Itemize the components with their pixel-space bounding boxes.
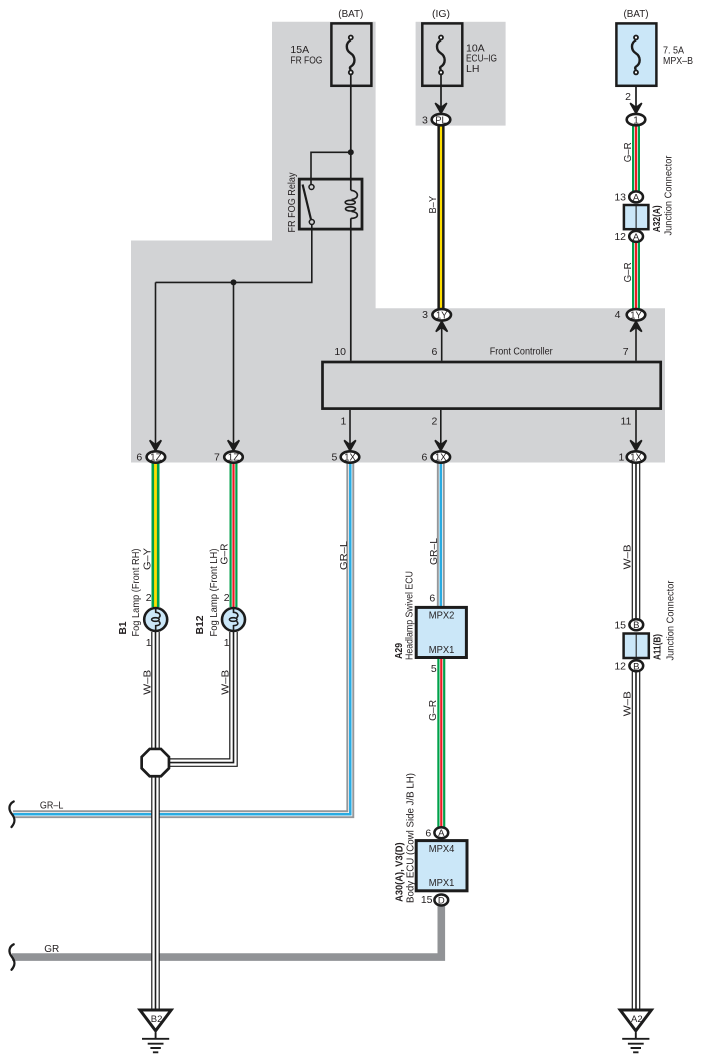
arrowhead down into PL [435,103,447,113]
svg-text:G–Y: G–Y [142,548,154,570]
svg-text:2: 2 [146,592,152,604]
svg-text:B2: B2 [151,1014,163,1025]
svg-text:A: A [438,828,445,839]
svg-text:FR FOG Relay: FR FOG Relay [286,172,298,233]
svg-text:G–R: G–R [219,543,231,564]
fuse 15A FR FOG element [347,36,355,75]
svg-text:(BAT): (BAT) [624,8,649,20]
svg-text:7: 7 [214,452,220,464]
wire Front Controller pin 6 up to 1Y [441,325,443,361]
svg-text:15: 15 [614,619,626,631]
svg-text:Junction Connector: Junction Connector [663,155,675,235]
svg-text:12: 12 [614,661,626,673]
svg-text:B1: B1 [117,621,129,634]
wire IG fuse tail to PL connector [440,75,442,109]
wire G-Y green-yellow from 1Z pin 6 to fog lamp B1 [152,462,160,607]
svg-text:1Z: 1Z [228,453,240,464]
break mark (wire continues) on GR at page left [9,944,14,970]
wire Front Controller pin 11 down to 1X [635,410,637,445]
wire GR-L gray-blue: vertical from 1X pin 5 down, corner left to page edge [13,463,350,814]
svg-text:B12: B12 [194,615,206,634]
ECU A29 Headlamp Swivel box (MPX2/MPX1) [416,607,466,657]
connector oval 1Z pin 6 [147,451,166,463]
svg-text:(IG): (IG) [432,8,450,20]
arrowhead down into 1X pin 5 [344,440,356,450]
wire MPX-B fuse tail to connector 1 [635,75,637,109]
connector oval PL [432,114,451,126]
pin circle A (6) of A30 [434,827,448,839]
arrowhead down into 1Z pin 6 [150,440,162,450]
pin circle B (15) of A11 [629,619,643,631]
wire branch down to connector 1Z pin 7 [233,282,235,445]
fuse 7.5A MPX-B box [616,23,656,85]
svg-text:1X: 1X [630,453,642,464]
svg-text:5: 5 [431,663,437,675]
wire G-R green-red from 1Z pin 7 to fog lamp B12 [230,462,238,607]
fuse 7.5A MPX-B element [632,36,640,75]
svg-text:A: A [633,232,640,243]
wire BAT fuse to relay coil (black) [350,75,352,191]
arrowhead down into 1X pin 6 [435,440,447,450]
connector oval 1X pin 5 [341,451,360,463]
pin circle A (12) of A32 [629,231,643,243]
svg-text:Body ECU (Cowl Side J/B LH): Body ECU (Cowl Side J/B LH) [405,773,417,903]
wire W-B from junction connector A11 down to ground A2 [632,670,641,1009]
arrowhead up into 1Y pin 3 [436,321,448,331]
wire relay coil out to Front Controller pin 10 [350,218,352,360]
svg-text:MPX1: MPX1 [429,644,455,656]
relay switch contact [303,185,315,225]
pin circle A (13) of A32 [629,191,643,203]
arrowhead down into connector 1 [630,103,642,113]
wire G-R from junction connector A32 down to 1Y pin 4 [632,241,640,309]
wire Front Controller pin 1 down to 1X [349,410,351,445]
junction connector A11(B) box [624,634,649,659]
svg-text:2: 2 [625,91,631,103]
svg-text:GR: GR [44,943,59,955]
pin circle B (12) of A11 [629,660,643,672]
svg-text:5: 5 [331,452,337,464]
svg-text:3: 3 [422,115,428,127]
ground B2 [140,1010,171,1052]
svg-text:GR–L: GR–L [338,541,350,570]
relay FR FOG Relay box [299,179,362,229]
svg-text:PL: PL [435,115,447,126]
wire G-R from Headlamp Swivel ECU pin 5 down to Body ECU pin A [437,658,445,828]
svg-text:FR FOG: FR FOG [290,55,322,67]
node octagon wire junction [142,749,169,776]
svg-text:B: B [633,661,639,672]
connector oval 1Y pin 3 [432,309,451,321]
arrowhead down into 1X pin 1 [630,440,642,450]
svg-text:13: 13 [614,191,626,203]
connector oval 1 (MPX-B) [627,114,646,126]
svg-text:2: 2 [224,592,230,604]
fuse 15A FR FOG box [331,23,371,85]
fog lamp B12 (Front LH) bulb [222,607,245,632]
svg-text:Junction Connector: Junction Connector [664,580,676,660]
svg-text:6: 6 [136,452,142,464]
wire W-B from 1X pin 1 down to junction connector A11 [632,463,641,620]
connector oval 1X pin 6 [432,451,451,463]
wire Front Controller pin 7 up to 1Y [635,325,637,361]
svg-text:1: 1 [340,416,346,428]
svg-text:G–R: G–R [622,142,634,162]
svg-text:1Z: 1Z [150,453,162,464]
svg-text:3: 3 [422,309,428,321]
wire branch junction to relay switch [311,152,351,184]
svg-text:G–R: G–R [427,699,439,720]
gray shading IG fuse region [416,22,506,126]
svg-text:6: 6 [432,346,438,358]
svg-text:W–B: W–B [622,544,634,569]
connector oval 1Z pin 7 [224,451,243,463]
svg-text:6: 6 [425,828,431,840]
svg-text:MPX1: MPX1 [429,877,455,889]
svg-text:MPX4: MPX4 [429,843,455,855]
svg-text:B: B [633,620,639,631]
svg-text:1Y: 1Y [630,311,642,322]
ground A2 [620,1010,651,1052]
svg-text:MPX2: MPX2 [429,609,455,621]
svg-text:W–B: W–B [220,670,232,695]
svg-text:A: A [633,192,640,203]
node junction dot on relay output branch [231,279,237,285]
connector oval 1X pin 1 [627,451,646,463]
svg-text:D: D [438,896,445,907]
svg-text:1: 1 [146,637,152,649]
svg-text:1X: 1X [435,453,447,464]
svg-text:A2: A2 [631,1014,643,1025]
svg-text:(BAT): (BAT) [338,8,363,20]
svg-text:1: 1 [633,115,639,126]
wire branch down to connector 1Z pin 6 [155,282,157,445]
svg-text:7: 7 [623,346,629,358]
fuse 10A ECU-IG LH box [422,23,462,85]
svg-text:12: 12 [614,231,626,243]
svg-text:GR–L: GR–L [428,538,440,565]
arrowhead down into 1Z pin 7 [228,440,240,450]
Front Controller box [323,362,661,409]
svg-text:G–R: G–R [622,262,634,282]
svg-text:6: 6 [421,452,427,464]
wire B-Y black-yellow from PL connector down to 1Y [437,125,444,309]
wire G-R from connector 1 down to junction connector A32 [632,125,640,192]
svg-text:1: 1 [618,452,624,464]
svg-text:11: 11 [620,416,631,428]
arrowhead up into 1Y pin 4 [630,321,642,331]
node junction dot at relay feed [348,149,354,155]
svg-text:6: 6 [429,592,435,604]
break mark (wire continues) on GR-L at page left [9,802,14,828]
wire GR solid gray from Body ECU pin D down, corner left to page edge [12,903,441,957]
svg-text:MPX–B: MPX–B [663,55,693,67]
fuse 10A ECU-IG LH element [437,36,445,75]
svg-text:B–Y: B–Y [427,196,439,214]
junction connector A32(A) box [624,205,649,229]
wire GR-L gray-blue from 1X pin 6 down to Headlamp Swivel ECU [437,463,445,607]
wire W-B from fog lamp B12 down then left to junction octagon [168,632,234,763]
relay coil [345,190,357,218]
svg-text:15: 15 [421,894,433,906]
svg-text:A11(B): A11(B) [651,634,663,660]
svg-text:1Y: 1Y [436,311,448,322]
svg-text:1: 1 [224,637,230,649]
svg-text:2: 2 [432,416,438,428]
svg-text:Fog Lamp (Front RH): Fog Lamp (Front RH) [130,549,142,637]
svg-text:Front Controller: Front Controller [490,346,553,358]
fog lamp B1 (Front RH) bulb [144,607,167,632]
svg-text:A32(A): A32(A) [651,205,663,232]
svg-text:LH: LH [466,63,479,75]
wire Front Controller pin 2 down to 1X [440,410,442,445]
svg-text:10: 10 [334,346,346,358]
pin circle D (15) of A30 [434,895,448,907]
svg-text:Fog Lamp (Front LH): Fog Lamp (Front LH) [208,549,220,637]
svg-text:W–B: W–B [622,691,634,716]
connector oval 1Y pin 4 [627,309,646,321]
svg-text:4: 4 [615,309,621,321]
gray shading main region (BAT/relay column + controller band) [131,22,665,463]
svg-text:W–B: W–B [142,670,154,695]
ECU A30 Body ECU box (MPX4/MPX1) [416,841,467,891]
svg-text:Headlamp Swivel ECU: Headlamp Swivel ECU [404,571,416,660]
svg-text:1X: 1X [344,453,356,464]
wire relay switch out, down then left [156,225,312,283]
wire W-B from fog lamp B1 down to ground B2 (crosses GR-L and GR) [151,632,160,1009]
svg-text:GR–L: GR–L [40,799,64,811]
